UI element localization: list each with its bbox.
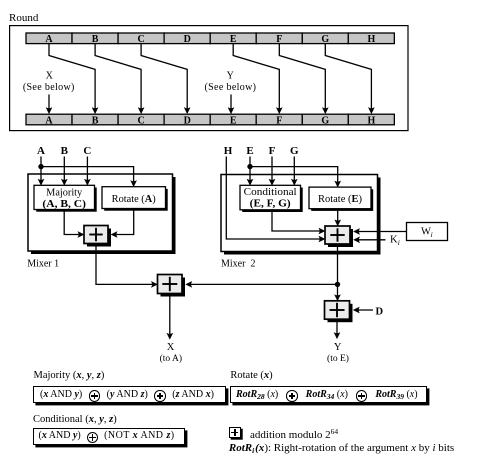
wire adder U4 output to Y [334,319,340,339]
register cell F (bottom row) [256,114,302,126]
wire A into Majority [38,157,44,186]
legend formula box for Majority [33,386,226,404]
svg-text:G: G [321,115,329,126]
svg-text:B: B [61,145,69,157]
function box Conditional (E, F, G) [240,185,303,212]
svg-text:(to A): (to A) [160,353,182,364]
register cell C (top row) [118,33,164,45]
register cell B (top row) [72,33,118,45]
label Mixer 1 [27,258,59,269]
svg-text:H: H [224,145,233,157]
adder U2 (Mixer 2, addition modulo 2^64) [325,226,353,247]
input box W_i [407,223,448,241]
wire X into cell A (bottom) [46,95,52,114]
round outer box [10,26,408,131]
svg-text:A: A [45,34,53,45]
svg-text:G: G [321,34,329,45]
wire Conditional output to adder U2 [272,210,325,234]
svg-text:(A, B, C): (A, B, C) [42,199,86,210]
legend text addition modulo 2^64 [250,428,338,441]
wire F (top) to G (bottom) [279,44,328,114]
wire junction to adder U3 [186,281,338,287]
register cell G (bottom row) [302,114,348,126]
label X [46,70,54,81]
register cell F (top row) [256,33,302,45]
register cell H (bottom row) [348,114,394,126]
svg-text:G: G [290,145,299,157]
node E (input to Mixer 2) [246,145,253,157]
label X output [167,342,175,353]
svg-text:H: H [368,34,376,45]
register cell H (top row) [348,33,394,45]
legend label Majority (x, y, z) [34,371,105,382]
svg-text:Conditional: Conditional [244,187,297,198]
register cell E (bottom row) [210,114,256,126]
svg-text:Majority: Majority [46,188,82,199]
svg-text:E: E [230,34,237,45]
svg-text:H: H [368,115,376,126]
wire adder U2 output to adder U4 [335,244,341,301]
svg-text:Y: Y [227,70,234,81]
wire E (top) to F (bottom) [233,44,282,114]
svg-text:W: W [421,226,431,237]
svg-text:C: C [137,34,144,45]
junction on A wire [38,164,43,169]
adder U3 (X output adder) [158,275,186,297]
wire A (top) to B (bottom) [49,44,98,114]
svg-text:Rotate (A): Rotate (A) [112,194,156,205]
register cell C (bottom row) [118,114,164,126]
node F (input to Mixer 2) [269,145,276,157]
adder U4 (Y output adder) [325,301,353,322]
wire Y into cell E (bottom) [228,95,234,114]
svg-text:A: A [45,115,53,126]
label Mixer 2 [221,258,255,269]
svg-text:X: X [167,342,175,353]
wire K_i to adder U2 [354,237,386,243]
register cell E (top row) [210,33,256,45]
wire D input to adder U4 [353,307,373,313]
wire Majority output to adder U1 [64,210,84,238]
svg-text:F: F [276,34,282,45]
register cell A (bottom row) [26,114,72,126]
legend label Rotate (x) [230,371,272,382]
svg-text:Y: Y [334,342,342,353]
wire G (top) to H (bottom) [325,44,374,114]
svg-text:C: C [83,145,91,157]
svg-text:Mixer 2: Mixer 2 [221,258,255,269]
label (See below) under X [23,82,75,93]
label Round [9,12,39,24]
register cell A (top row) [26,33,72,45]
register cell G (top row) [302,33,348,45]
register cell B (bottom row) [72,114,118,126]
wire G into Conditional [291,157,297,186]
legend adder symbol (addition modulo 2^64) [229,427,241,438]
node H (input to Mixer 2) [224,145,233,157]
svg-text:Rotate (E): Rotate (E) [318,194,362,205]
function box Rotate (A) [102,187,168,211]
svg-text:i: i [398,238,400,247]
mixer 2 enclosure box [221,175,381,255]
wire H to adder U2 [226,157,325,243]
node A (input to Mixer 1) [37,145,45,157]
register cell D (top row) [164,33,210,45]
function box Majority (A, B, C) [34,185,97,211]
wire E branch to Rotate (E) [250,167,341,188]
node B (input to Mixer 1) [61,145,69,157]
legend label Conditional (x, y, z) [33,415,117,426]
svg-text:E: E [230,115,237,126]
svg-text:Mixer 1: Mixer 1 [27,258,59,269]
svg-text:E: E [246,145,253,157]
legend formula box for Conditional [33,428,185,445]
wire B into Majority [61,157,67,186]
svg-text:F: F [276,115,282,126]
wire B (top) to C (bottom) [95,44,144,114]
svg-text:F: F [269,145,276,157]
wire Rotate (E) output to adder U2 [335,209,341,226]
label Y output [334,342,342,353]
wire A branch to Rotate (A) [41,167,137,187]
node G (input to Mixer 2) [290,145,299,157]
wire adder U1 output to adder U3 [96,244,158,288]
legend text RotR_i(x) definition [229,443,454,455]
wire C into Majority [84,157,90,186]
label D [376,306,384,317]
adder U1 (Mixer 1, addition modulo 2^64) [84,226,111,247]
function box Rotate (E) [309,187,373,211]
svg-text:A: A [37,145,45,157]
svg-text:(E, F, G): (E, F, G) [250,199,291,210]
svg-text:K: K [390,234,398,245]
legend formula box for Rotate [230,386,428,404]
label (to A) [160,353,182,364]
svg-text:X: X [46,70,54,81]
svg-text:D: D [184,34,191,45]
register cell D (bottom row) [164,114,210,126]
mixer 1 enclosure box [28,174,176,254]
node C (input to Mixer 1) [83,145,91,157]
wire F into Conditional [269,157,275,186]
svg-text:(to E): (to E) [327,353,349,364]
svg-text:(See below): (See below) [204,82,256,93]
svg-text:D: D [376,306,384,317]
svg-text:B: B [92,115,99,126]
svg-text:Round: Round [9,12,39,24]
junction on E wire [247,164,252,169]
label K_i [390,234,400,247]
junction on U2 output [335,282,340,287]
svg-text:D: D [184,115,191,126]
wire C (top) to D (bottom) [141,44,190,114]
wire W_i to adder U2 [354,229,407,235]
wire Rotate (A) output to adder U1 [111,209,134,238]
svg-text:i: i [431,230,433,239]
svg-text:B: B [92,34,99,45]
wire E into Conditional [247,157,253,186]
label (See below) under Y [204,82,256,93]
label (to E) [327,353,349,364]
wire adder U3 output to X [167,294,173,340]
svg-text:C: C [137,115,144,126]
svg-text:(See below): (See below) [23,82,75,93]
label Y [227,70,234,81]
